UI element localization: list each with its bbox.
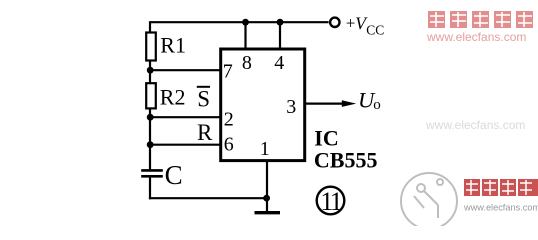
watermark bottom-right red text — [464, 179, 538, 196]
svg-text:R1: R1 — [160, 33, 186, 58]
wire: R2 bottom down to capacitor — [149, 108, 151, 169]
watermark top-right red text — [428, 11, 533, 28]
svg-text:S: S — [197, 87, 210, 112]
wire: +Vcc top rail — [150, 21, 329, 23]
terminal +Vcc open circle — [330, 18, 339, 27]
capacitor C bottom plate — [141, 175, 163, 178]
resistor R1 — [146, 33, 156, 61]
wire: capacitor to bottom rail — [149, 177, 151, 199]
capacitor C top plate — [141, 169, 163, 172]
wire: to pin 6 — [150, 144, 222, 146]
svg-text:C: C — [165, 160, 183, 190]
svg-text:www.elecfans.com: www.elecfans.com — [463, 203, 538, 213]
wire: pin 8 to top rail — [244, 22, 246, 50]
node junction dot R1/R2/pin7 — [147, 67, 154, 74]
svg-text:+: + — [346, 14, 356, 33]
svg-text:www.elecfans.com: www.elecfans.com — [426, 30, 526, 44]
svg-text:11: 11 — [320, 187, 341, 216]
arrowhead output — [342, 100, 356, 107]
ground symbol — [255, 211, 281, 214]
watermark bottom logo — [401, 173, 457, 229]
wire: to pin 2 — [150, 116, 222, 118]
node junction dot pin6 branch — [147, 141, 154, 148]
svg-text:o: o — [373, 97, 381, 113]
wire: R1 bottom to R2 top — [149, 61, 151, 84]
svg-text:7: 7 — [223, 61, 233, 83]
svg-text:6: 6 — [224, 133, 234, 155]
node junction dot bottom rail/pin1 — [263, 195, 270, 202]
svg-text:2: 2 — [224, 109, 234, 131]
svg-text:R2: R2 — [160, 85, 186, 110]
wire: to pin 7 — [150, 69, 222, 71]
svg-text:1: 1 — [260, 138, 270, 160]
svg-text:R: R — [197, 120, 213, 145]
node junction dot pin4/rail — [277, 19, 284, 26]
resistor R2 — [146, 83, 156, 108]
node junction dot R2/pin2 — [147, 114, 154, 121]
wire: left drop from rail to R1 — [149, 21, 151, 33]
svg-text:4: 4 — [274, 52, 284, 74]
wire: pin 3 output — [305, 102, 343, 104]
node junction dot pin8/rail — [242, 19, 249, 26]
svg-text:CB555: CB555 — [314, 147, 378, 172]
svg-text:3: 3 — [286, 96, 296, 118]
svg-text:8: 8 — [242, 52, 252, 74]
wire: pin 4 to top rail — [279, 22, 281, 50]
svg-text:www.elecfans.com: www.elecfans.com — [425, 118, 525, 132]
svg-text:CC: CC — [366, 23, 384, 38]
IC U1 box (CB555) — [221, 49, 305, 161]
wire: bottom rail — [149, 197, 267, 199]
figure number circled 11 — [317, 187, 345, 215]
wire: pin 1 vertical to ground — [266, 161, 268, 212]
